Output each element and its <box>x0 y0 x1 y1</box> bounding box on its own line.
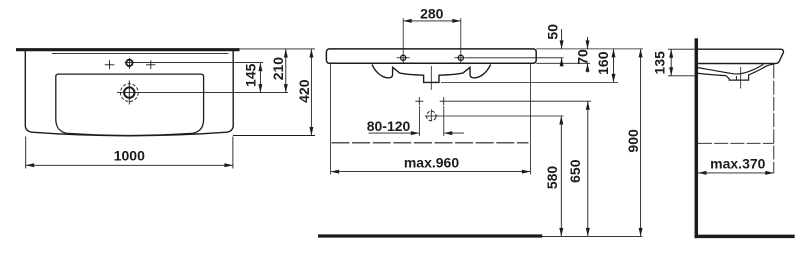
svg-text:280: 280 <box>420 6 444 22</box>
trap inner line side <box>735 76 737 80</box>
trap bottom extension line 160 <box>441 81 618 83</box>
floor thin line front <box>542 235 642 237</box>
dimension 1000 <box>25 137 27 169</box>
dimension max.370 <box>698 172 774 174</box>
furniture dashed line front <box>332 142 529 144</box>
basin outer outline plan <box>25 51 233 136</box>
faucet hole right front <box>458 55 463 60</box>
centerline front <box>430 66 432 90</box>
wall back thick line <box>16 48 240 51</box>
faucet hole left front <box>401 55 406 60</box>
basin inner bowl plan <box>56 74 204 135</box>
faucet extension front <box>467 57 563 59</box>
dimension 50 <box>561 29 563 49</box>
basin apron front outline <box>372 64 491 82</box>
dimension 650 <box>587 101 589 236</box>
svg-text:210: 210 <box>270 57 286 81</box>
dimension 420 <box>310 49 312 136</box>
drain extension line <box>117 92 288 94</box>
rim front <box>326 49 536 63</box>
drop line left <box>418 106 420 136</box>
right cross mark plan <box>146 64 156 66</box>
svg-text:80-120: 80-120 <box>367 118 411 134</box>
dimension 280 <box>402 18 404 52</box>
drain front <box>425 110 437 122</box>
furniture dashed front side <box>773 65 775 173</box>
dimension 900 <box>640 49 642 237</box>
dimension 580 <box>560 116 562 236</box>
dimension 145 <box>259 63 261 93</box>
furniture dashed bottom side <box>698 142 774 144</box>
inner bowl and trap side <box>697 64 774 80</box>
rim side profile <box>696 49 783 63</box>
top extension line <box>240 48 316 50</box>
max.960 extension right <box>529 64 531 175</box>
outer bowl curve side <box>697 64 764 74</box>
faucet hole plan <box>126 60 132 66</box>
svg-text:70: 70 <box>575 49 591 65</box>
svg-text:50: 50 <box>544 24 560 40</box>
svg-text:580: 580 <box>544 166 560 190</box>
svg-text:135: 135 <box>651 51 667 75</box>
bottom extension line 420 <box>233 135 315 137</box>
mounting mark left <box>415 100 423 102</box>
floor side <box>695 235 795 239</box>
extension apron bottom left of wall <box>668 75 698 77</box>
wall side <box>695 38 699 238</box>
svg-text:900: 900 <box>625 129 641 153</box>
svg-text:420: 420 <box>296 79 312 103</box>
dimension 210 <box>285 49 287 93</box>
basin back shelf line plan <box>52 53 229 55</box>
svg-text:1000: 1000 <box>114 147 145 163</box>
left cross mark plan <box>105 64 115 66</box>
svg-text:145: 145 <box>243 63 259 87</box>
drain extension line front <box>437 115 564 117</box>
max.960 extension left <box>330 64 332 175</box>
svg-text:650: 650 <box>567 159 583 183</box>
dimension 80-120 <box>369 132 420 134</box>
dimension 135 <box>670 49 672 76</box>
rim top extension <box>536 48 643 50</box>
mounting mark right <box>440 100 448 102</box>
mounting extension line <box>448 100 591 102</box>
drain plan <box>120 84 138 102</box>
centerline side <box>740 67 742 89</box>
rim bottom extension <box>536 62 590 64</box>
svg-text:160: 160 <box>595 51 611 75</box>
svg-text:max.370: max.370 <box>710 156 765 172</box>
dimension 70 <box>587 37 589 49</box>
extension rim top left of wall <box>668 48 694 50</box>
dimension 160 <box>613 49 615 83</box>
dimension max.960 <box>331 171 531 173</box>
svg-text:max.960: max.960 <box>404 154 459 170</box>
drop line right <box>443 106 445 136</box>
faucet extension line <box>134 62 263 64</box>
floor thick line front <box>318 234 542 237</box>
